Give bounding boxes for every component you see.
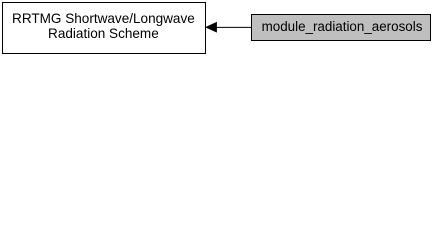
node: RRTMG Shortwave/Longwave Radiation Scheme: [2, 2, 206, 54]
node: module_radiation_aerosols: [251, 14, 431, 41]
arrowhead: [206, 23, 216, 32]
wire: dependency arrow from module_radiation_aerosols to RRTMG box: [0, 0, 435, 56]
wire segment: [216, 26, 252, 28]
